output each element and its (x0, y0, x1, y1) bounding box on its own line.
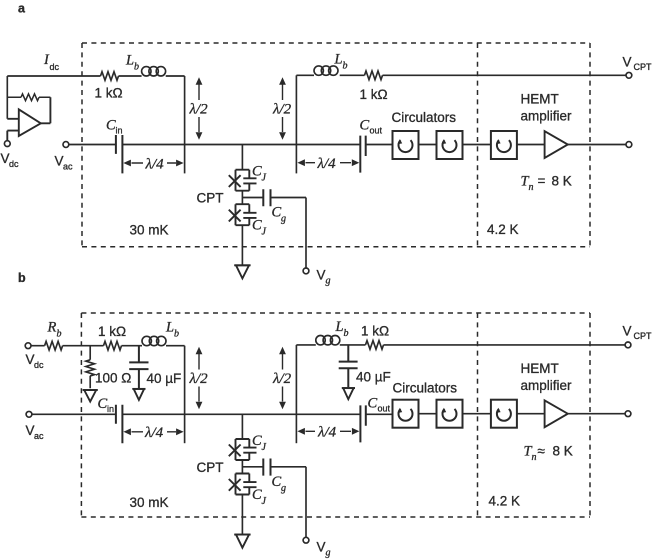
label C_J bottom (panel b) (252, 487, 267, 507)
label V_g (panel b) (317, 540, 331, 559)
label HEMT amplifier (panel a) (521, 92, 573, 124)
svg-text:V: V (317, 268, 326, 283)
svg-text:λ/4: λ/4 (317, 424, 337, 440)
svg-text:λ/2: λ/2 (272, 371, 292, 387)
svg-text:V: V (623, 55, 632, 70)
svg-text:V: V (623, 324, 632, 339)
label C_J bottom (panel a) (252, 218, 267, 238)
lambda/2 dimension right (panel a) (282, 85, 284, 133)
svg-text:CPT: CPT (634, 62, 653, 72)
svg-text:R: R (47, 320, 57, 336)
svg-text:λ/2: λ/2 (189, 371, 209, 387)
wire: dc bias line (panel b) (31, 345, 185, 347)
svg-text:C: C (252, 487, 262, 503)
svg-text:λ/4: λ/4 (144, 425, 164, 441)
capacitor C_out (panel b) (360, 405, 365, 442)
label C_out (panel a) (360, 118, 383, 136)
terminal V_g (panel a) (303, 268, 309, 274)
svg-text:b: b (174, 329, 179, 340)
svg-text:4.2 K: 4.2 K (489, 494, 521, 509)
resistor 1 kOhm (panel b right) (366, 341, 384, 350)
svg-text:g: g (281, 214, 286, 225)
svg-text:1 kΩ: 1 kΩ (360, 87, 388, 102)
label L_b (panel a right) (334, 52, 348, 72)
svg-text:in: in (107, 404, 114, 414)
svg-text:λ/2: λ/2 (189, 102, 209, 118)
svg-text:HEMT: HEMT (521, 92, 559, 107)
label V_g (panel a) (317, 268, 331, 287)
resistor 1 kOhm (panel a left) (101, 72, 119, 81)
lambda/2 stub left (panel b) (184, 346, 186, 444)
inductor L_b (panel b left) (142, 336, 166, 345)
svg-text:b: b (18, 271, 26, 285)
label T_n = 8 K (panel a) (521, 174, 572, 194)
capacitor 40 uF (panel b right) (339, 345, 358, 387)
svg-text:CPT: CPT (197, 460, 224, 475)
ground (under left 40 uF) (132, 389, 145, 400)
lambda/4 dimension left (panel b) (132, 431, 177, 433)
30 mK dashed enclosure (panel b) (81, 313, 590, 517)
svg-text:40 µF: 40 µF (147, 371, 182, 386)
svg-text:40 µF: 40 µF (356, 370, 391, 385)
svg-text:amplifier: amplifier (521, 109, 573, 124)
ground (panel a CPT) (234, 265, 250, 278)
wire: top bias line left (panel a) (7, 75, 184, 77)
svg-text:L: L (165, 320, 174, 336)
svg-text:J: J (262, 173, 267, 184)
svg-text:C: C (252, 433, 262, 449)
capacitor C_out (panel a) (360, 136, 365, 173)
svg-text:4.2 K: 4.2 K (487, 222, 519, 237)
svg-text:J: J (262, 442, 267, 453)
wire: circulator to amplifier (panel b) (517, 413, 545, 415)
lambda/4 dimension left (panel a) (132, 162, 177, 164)
label C_out (panel b) (368, 396, 391, 414)
4.2 K dashed divider (panel a) (477, 43, 479, 247)
svg-text:8 K: 8 K (552, 174, 572, 189)
svg-text:8 K: 8 K (553, 444, 573, 459)
label L_b (panel b left) (165, 320, 179, 340)
label C_in (panel a) (106, 118, 123, 136)
svg-text:30 mK: 30 mK (130, 495, 169, 510)
resistor 100 Ohm (panel b) (86, 346, 95, 389)
label C_g (panel a) (272, 205, 287, 225)
svg-text:C: C (272, 205, 282, 221)
svg-text:n: n (532, 452, 537, 463)
svg-text:λ/2: λ/2 (272, 102, 292, 118)
HEMT amplifier (panel b) (545, 400, 568, 427)
label R_b (47, 320, 62, 340)
svg-text:HEMT: HEMT (521, 361, 559, 376)
wire: CPT source to ground (panel b) (241, 495, 243, 535)
wire: circulator link 2 (panel b) (463, 413, 491, 415)
svg-text:L: L (334, 52, 343, 68)
svg-text:b: b (344, 328, 349, 339)
terminal V_CPT (panel a) (626, 72, 632, 78)
wire: CPT island (panel b) (242, 460, 263, 474)
capacitor 40 uF (panel b left) (129, 346, 148, 388)
svg-text:Circulators: Circulators (392, 110, 457, 125)
svg-text:ac: ac (63, 161, 73, 171)
josephson junction C_J bottom (panel b) (229, 474, 257, 495)
svg-text:C: C (360, 118, 370, 134)
svg-text:1 kΩ: 1 kΩ (95, 86, 123, 101)
circulator 1 (panel b) (393, 400, 419, 428)
wire: gate line (panel b) (271, 467, 307, 538)
wire: CPT island (panel a) (242, 191, 263, 205)
svg-text:dc: dc (34, 360, 44, 370)
label HEMT amplifier (panel b) (521, 361, 573, 393)
wire: amplifier output (panel b) (568, 413, 625, 415)
terminal output (panel a) (626, 142, 632, 148)
circulator 2 (panel b) (437, 400, 463, 428)
wire: circulator link 2 (panel a) (463, 144, 491, 146)
ground (under right 40 uF) (342, 388, 355, 399)
svg-text:C: C (252, 218, 262, 234)
svg-text:in: in (116, 126, 123, 136)
wire: circulator to amplifier (panel a) (517, 144, 545, 146)
terminal V_ac (panel a) (63, 142, 69, 148)
lambda/2 stub left (panel a) (184, 76, 186, 173)
label V_CPT (panel b) (623, 324, 653, 342)
30 mK dashed enclosure (panel a) (82, 43, 590, 247)
svg-text:out: out (378, 404, 391, 414)
svg-text:1 kΩ: 1 kΩ (361, 324, 389, 339)
josephson junction C_J top (panel a) (229, 170, 257, 191)
svg-text:λ/4: λ/4 (145, 157, 165, 173)
inductor L_b (panel a left) (142, 67, 166, 76)
svg-text:CPT: CPT (634, 331, 653, 341)
resistor R_b (panel b) (45, 341, 63, 350)
node: CPT tap junction (panel a) (241, 145, 243, 170)
svg-text:g: g (326, 276, 331, 287)
terminal output (panel b) (625, 411, 631, 417)
josephson junction C_J top (panel b) (229, 439, 257, 460)
feedback resistor of op-amp (7, 94, 50, 101)
svg-text:out: out (370, 126, 383, 136)
capacitor C_g (panel b) (263, 459, 270, 476)
svg-text:C: C (252, 164, 262, 180)
svg-text:b: b (134, 62, 139, 73)
svg-text:30 mK: 30 mK (130, 223, 169, 238)
svg-text:C: C (98, 396, 108, 412)
svg-text:b: b (57, 329, 62, 340)
svg-text:V: V (317, 540, 326, 555)
lambda/4 dimension right (panel a) (306, 162, 352, 164)
node: CPT tap junction (panel b) (241, 414, 243, 439)
svg-text:L: L (125, 53, 134, 69)
terminal V_dc (panel b) (25, 343, 31, 349)
svg-text:C: C (368, 396, 378, 412)
svg-text:C: C (272, 474, 282, 490)
circulator 1 (panel a) (393, 131, 419, 159)
wire: amplifier output (panel a) (568, 144, 626, 146)
svg-text:=: = (538, 174, 546, 189)
lambda/4 dimension right (panel b) (306, 430, 352, 432)
wire: top bias line right (panel a) (296, 74, 626, 76)
resistor 1 kOhm (panel b left) (104, 341, 122, 350)
circulator 3 (panel a) (491, 131, 517, 159)
svg-text:100 Ω: 100 Ω (95, 371, 131, 386)
lambda/2 dimension right (panel b) (282, 354, 284, 402)
label T_n ~ 8 K (panel b) (524, 444, 573, 464)
svg-text:a: a (18, 2, 26, 16)
wire: gate line (panel a) (271, 198, 307, 269)
wire: main feed line (panel a) (69, 144, 393, 146)
wire: I_dc node vertical (panel a) (6, 76, 8, 119)
svg-text:g: g (281, 483, 286, 494)
label C_g (panel b) (272, 474, 287, 494)
label V_dc (panel b) (26, 352, 45, 370)
svg-text:λ/4: λ/4 (317, 156, 337, 172)
svg-text:L: L (335, 319, 344, 335)
label C_in (panel b) (98, 396, 115, 414)
svg-text:Circulators: Circulators (393, 381, 458, 396)
terminal V_CPT (panel b) (625, 342, 631, 348)
svg-text:amplifier: amplifier (521, 378, 573, 393)
circulator 3 (panel b) (491, 400, 517, 428)
label L_b (panel b right) (335, 319, 349, 339)
resistor 1 kOhm (panel a right) (365, 71, 383, 80)
ground (panel b CPT) (234, 535, 250, 548)
wire: main feed line (panel b) (32, 413, 393, 415)
svg-text:1 kΩ: 1 kΩ (98, 324, 126, 339)
4.2 K dashed divider (panel b) (477, 313, 479, 517)
svg-text:n: n (529, 182, 534, 193)
inductor L_b (panel b right) (316, 336, 340, 345)
lambda/2 dimension left (panel b) (198, 354, 200, 402)
label L_b (panel a left) (125, 53, 139, 73)
wire: top bias line right (panel b) (296, 344, 625, 346)
wire: CPT source to ground (panel a) (241, 225, 243, 265)
svg-text:dc: dc (9, 159, 19, 169)
label C_J top (panel b) (252, 433, 267, 453)
svg-text:CPT: CPT (197, 191, 224, 206)
circulator 2 (panel a) (437, 131, 463, 159)
HEMT amplifier (panel a) (545, 131, 568, 158)
terminal V_g (panel b) (303, 537, 309, 543)
capacitor C_in (panel b) (116, 405, 123, 443)
label I_dc (43, 52, 60, 72)
svg-text:ac: ac (34, 431, 44, 441)
wire: circulator link 1 (panel a) (419, 144, 437, 146)
label V_CPT (panel a) (623, 55, 653, 73)
ground (under 100 Ohm) (83, 390, 98, 402)
josephson junction C_J bottom (panel a) (229, 204, 257, 225)
terminal V_dc (panel a) (4, 141, 10, 147)
lambda/2 stub right (panel b) (295, 345, 297, 443)
terminal V_ac (panel b) (26, 411, 32, 417)
capacitor C_g (panel a) (263, 189, 270, 206)
inductor L_b (panel a right) (314, 66, 338, 75)
svg-text:J: J (262, 496, 267, 507)
svg-text:dc: dc (50, 62, 60, 72)
capacitor C_in (panel a) (116, 135, 123, 173)
label V_dc (panel a) (1, 151, 20, 169)
svg-text:g: g (326, 548, 331, 559)
svg-text:b: b (343, 61, 348, 72)
label V_ac (panel a) (55, 153, 74, 171)
lambda/2 dimension left (panel a) (198, 85, 200, 133)
svg-text:≈: ≈ (538, 444, 546, 459)
svg-text:J: J (262, 227, 267, 238)
lambda/2 stub right (panel a) (295, 75, 297, 173)
label C_J top (panel a) (252, 164, 267, 184)
wire: circulator link 1 (panel b) (419, 413, 437, 415)
op-amp current source U1 (7, 97, 50, 140)
label V_ac (panel b) (26, 423, 45, 441)
svg-text:C: C (106, 118, 116, 134)
